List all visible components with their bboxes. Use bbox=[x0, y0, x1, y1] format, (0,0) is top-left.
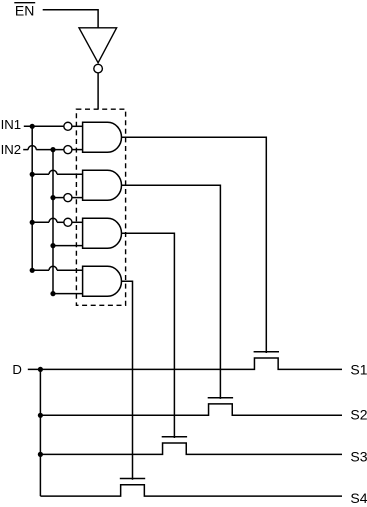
svg-text:EN: EN bbox=[15, 3, 34, 19]
svg-text:S4: S4 bbox=[350, 490, 367, 506]
svg-text:S3: S3 bbox=[350, 448, 367, 464]
svg-text:IN1: IN1 bbox=[1, 117, 22, 132]
svg-text:S2: S2 bbox=[350, 407, 367, 423]
svg-text:IN2: IN2 bbox=[1, 142, 22, 157]
svg-text:S1: S1 bbox=[350, 361, 367, 377]
svg-text:D: D bbox=[12, 362, 22, 377]
